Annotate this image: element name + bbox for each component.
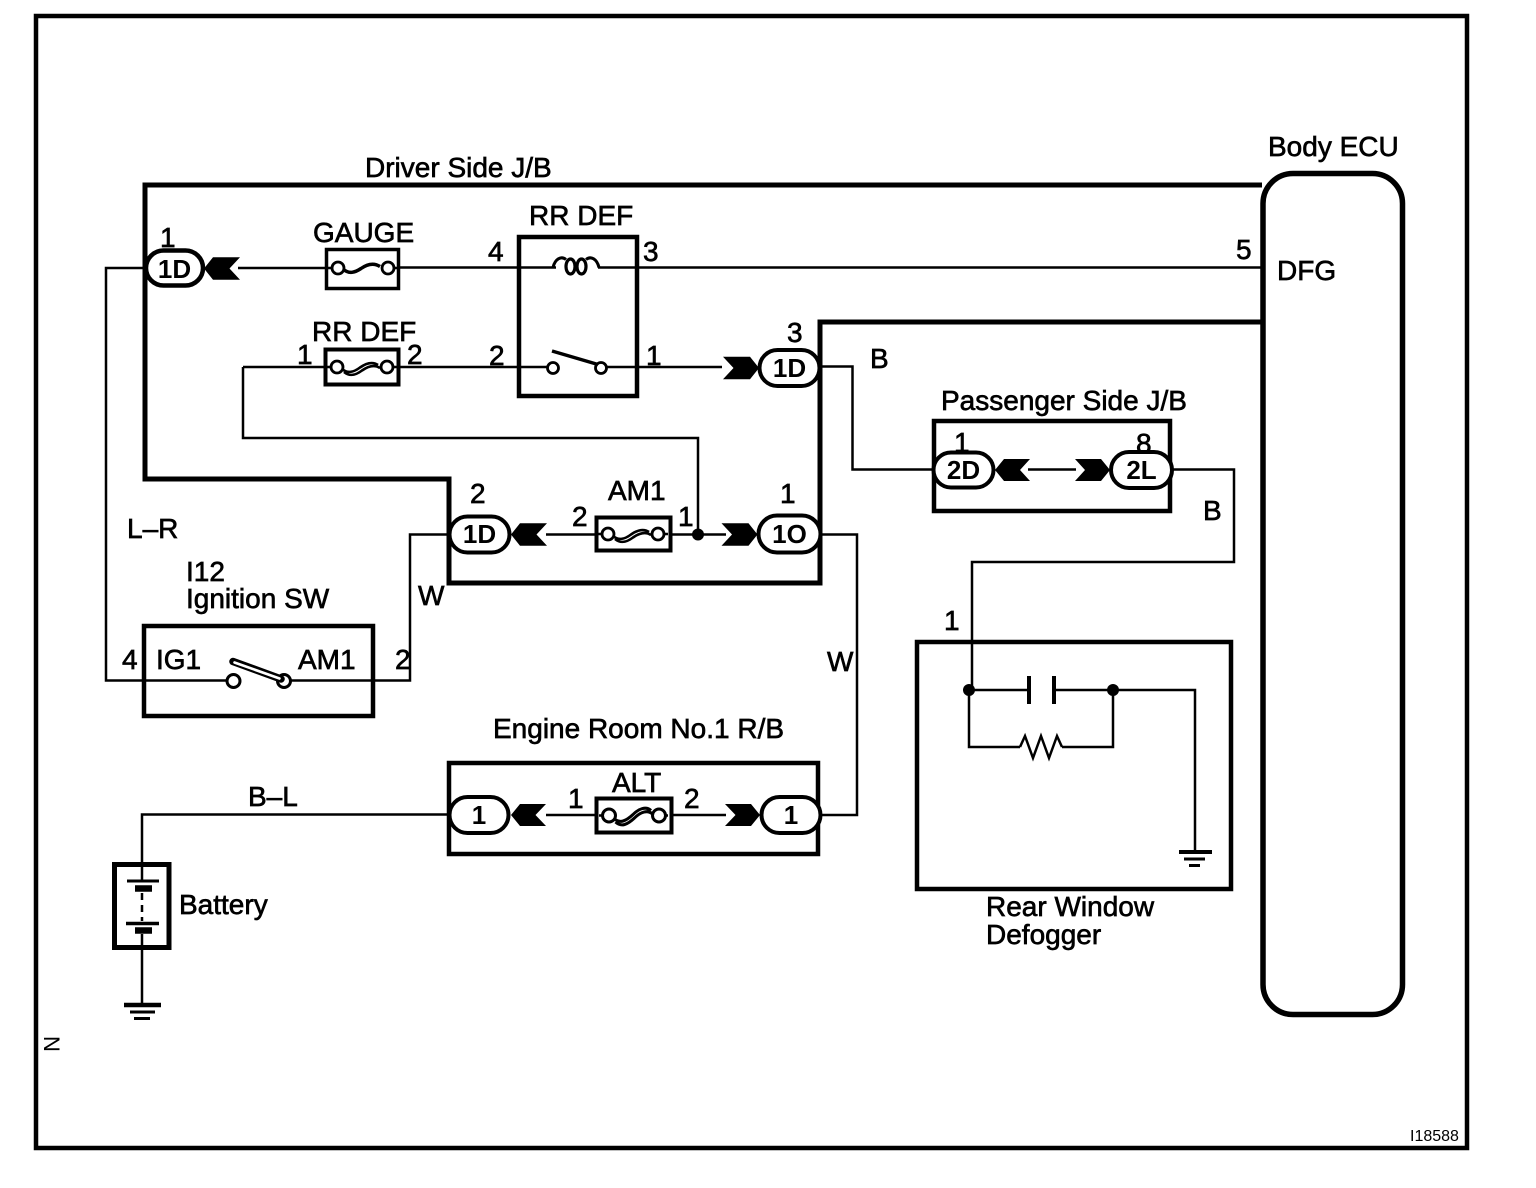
svg-text:2: 2 bbox=[572, 501, 588, 532]
junction node right bbox=[1107, 684, 1119, 696]
svg-text:1: 1 bbox=[678, 501, 694, 532]
svg-text:ALT: ALT bbox=[612, 767, 661, 798]
svg-text:1D: 1D bbox=[773, 353, 806, 383]
wire W: 1O connector down to Engine Room R/B bbox=[821, 535, 857, 816]
svg-text:IG1: IG1 bbox=[156, 644, 201, 675]
battery BT1 bbox=[115, 865, 170, 948]
relay RR DEF bbox=[519, 237, 637, 396]
wire row1 arrow to GAUGE bbox=[238, 267, 326, 270]
ground defogger bbox=[1179, 850, 1212, 854]
svg-text:RR DEF: RR DEF bbox=[312, 316, 416, 347]
wire row1 left of connector 1D bbox=[106, 268, 230, 681]
connector 1D mid bbox=[450, 517, 510, 553]
GAUGE fuse F1 bbox=[327, 250, 399, 289]
svg-text:1: 1 bbox=[568, 783, 584, 814]
svg-text:Ignition SW: Ignition SW bbox=[186, 583, 330, 614]
svg-text:GAUGE: GAUGE bbox=[313, 217, 414, 248]
svg-text:Defogger: Defogger bbox=[986, 919, 1101, 950]
svg-text:W: W bbox=[827, 646, 854, 677]
svg-text:AM1: AM1 bbox=[608, 475, 666, 506]
battery bottom wire bbox=[141, 934, 144, 1004]
arrow into 1O bbox=[722, 523, 758, 545]
battery top wire bbox=[141, 864, 144, 881]
wire engine row arrow to ALT bbox=[546, 814, 597, 817]
connector 1D top left bbox=[146, 251, 203, 286]
battery plate long top bbox=[127, 880, 159, 883]
arrow into 2D bbox=[995, 459, 1030, 481]
svg-text:Rear Window: Rear Window bbox=[986, 891, 1155, 922]
wire row2 RR DEF fuse row bbox=[243, 366, 722, 369]
svg-text:B: B bbox=[870, 343, 889, 374]
fuse AM1 bbox=[597, 518, 671, 551]
defogger wires bbox=[969, 690, 1195, 852]
junction node at AM1 output bbox=[692, 529, 704, 541]
svg-text:Engine Room No.1 R/B: Engine Room No.1 R/B bbox=[493, 713, 784, 744]
battery plate short thick bbox=[135, 885, 152, 892]
svg-text:L–R: L–R bbox=[127, 513, 178, 544]
ignition switch contacts bbox=[227, 675, 240, 688]
svg-text:2: 2 bbox=[395, 644, 411, 675]
svg-text:1: 1 bbox=[472, 800, 486, 830]
relay coil bbox=[553, 258, 566, 268]
svg-text:2: 2 bbox=[684, 783, 700, 814]
svg-text:B: B bbox=[1203, 495, 1222, 526]
defogger resistor loop wire bbox=[969, 690, 1113, 747]
svg-text:2: 2 bbox=[470, 478, 486, 509]
connector 1D row2 right bbox=[760, 350, 820, 386]
Driver Side J/B box outline bbox=[145, 185, 1262, 583]
svg-text:1D: 1D bbox=[158, 254, 191, 284]
arrow into 1D row2 bbox=[723, 357, 759, 379]
wire between 2D and 2L arrows bbox=[1028, 468, 1076, 471]
svg-text:1: 1 bbox=[646, 340, 662, 371]
wire B: 1D connector to 2D connector bbox=[820, 367, 935, 470]
svg-text:1D: 1D bbox=[463, 519, 496, 549]
svg-text:1: 1 bbox=[297, 339, 313, 370]
svg-text:I18588: I18588 bbox=[1410, 1128, 1459, 1145]
svg-text:2D: 2D bbox=[947, 455, 980, 485]
RR DEF fuse F2 bbox=[326, 350, 399, 385]
wire ALT to right connector bbox=[671, 814, 726, 817]
arrow into right 1 bbox=[725, 804, 760, 826]
wire B: 2L connector to Rear Window Defogger bbox=[972, 470, 1234, 691]
wire row3 arrow to AM1 bbox=[546, 533, 597, 536]
svg-text:RR DEF: RR DEF bbox=[529, 200, 633, 231]
arrow into 1D bbox=[204, 257, 240, 279]
Body ECU U1 bbox=[1263, 174, 1403, 1015]
arrow into mid 1D bbox=[511, 523, 547, 545]
svg-text:1: 1 bbox=[944, 605, 960, 636]
svg-text:DFG: DFG bbox=[1277, 255, 1336, 286]
svg-text:Body ECU: Body ECU bbox=[1268, 131, 1399, 162]
Rear Window Defogger box bbox=[917, 642, 1231, 889]
ignition switch lever bbox=[233, 662, 281, 680]
wire from RR DEF fuse down and right to AM1 junction bbox=[243, 367, 698, 534]
svg-text:3: 3 bbox=[787, 317, 803, 348]
connector 2L bbox=[1111, 452, 1172, 488]
wire GAUGE to relay and to Body ECU bbox=[399, 266, 1262, 269]
svg-text:Driver Side J/B: Driver Side J/B bbox=[365, 152, 552, 183]
svg-text:2: 2 bbox=[489, 340, 505, 371]
svg-text:2: 2 bbox=[407, 339, 423, 370]
fuse ALT bbox=[597, 799, 672, 833]
battery dashed center bbox=[141, 893, 144, 921]
svg-text:1: 1 bbox=[160, 222, 176, 253]
svg-text:1O: 1O bbox=[772, 519, 807, 549]
junction node left bbox=[963, 684, 975, 696]
arrow into left 1 bbox=[511, 804, 546, 826]
svg-text:4: 4 bbox=[488, 236, 504, 267]
relay switch lever bbox=[552, 351, 598, 365]
svg-text:5: 5 bbox=[1236, 234, 1252, 265]
ground battery bbox=[124, 1003, 161, 1008]
connector 1 right engine bbox=[762, 797, 821, 833]
wire W: ignition SW pin2 up to 1D connector bbox=[287, 535, 450, 681]
svg-text:1: 1 bbox=[780, 478, 796, 509]
svg-text:AM1: AM1 bbox=[298, 644, 356, 675]
ignition switch I12 bbox=[144, 626, 373, 716]
svg-text:2L: 2L bbox=[1126, 455, 1156, 485]
svg-text:W: W bbox=[418, 580, 445, 611]
svg-text:1: 1 bbox=[954, 427, 970, 458]
Passenger Side J/B box bbox=[934, 421, 1170, 511]
battery plate short thick bottom bbox=[135, 927, 152, 934]
connector 1 left engine bbox=[450, 797, 509, 833]
svg-text:3: 3 bbox=[643, 236, 659, 267]
svg-text:4: 4 bbox=[122, 644, 138, 675]
svg-text:Passenger Side J/B: Passenger Side J/B bbox=[941, 385, 1187, 416]
capacitor element bbox=[1027, 676, 1031, 704]
connector 1O bbox=[759, 516, 821, 553]
relay switch contacts bbox=[548, 363, 559, 374]
wire AM1 to 1O connector bbox=[670, 533, 726, 536]
svg-text:1: 1 bbox=[784, 800, 798, 830]
wire B-L: battery to Engine Room R/B bbox=[142, 815, 450, 865]
svg-text:Battery: Battery bbox=[179, 889, 268, 920]
Engine Room No.1 R/B box bbox=[449, 763, 818, 854]
battery plate long bottom bbox=[126, 922, 159, 926]
connector 2D bbox=[934, 453, 994, 488]
svg-text:B–L: B–L bbox=[248, 781, 298, 812]
svg-text:N: N bbox=[39, 1036, 64, 1052]
resistor zigzag bbox=[1020, 736, 1062, 758]
svg-text:8: 8 bbox=[1136, 428, 1152, 459]
arrow into 2L bbox=[1075, 459, 1110, 481]
